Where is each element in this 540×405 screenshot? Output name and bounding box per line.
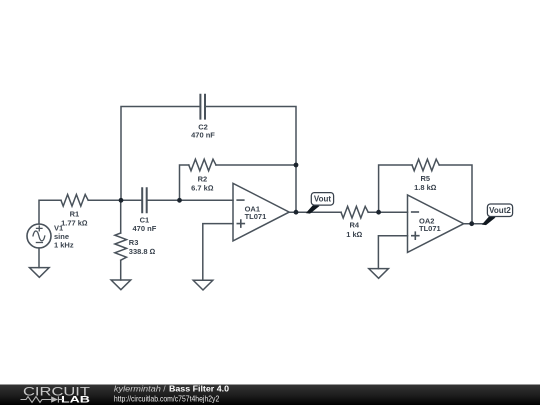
ground OA2	[369, 269, 389, 279]
resistor R5	[412, 159, 439, 171]
junction node R2/C2 right	[294, 163, 299, 168]
wire OA1 plus to ground	[203, 224, 233, 281]
svg-text:1 kHz: 1 kHz	[54, 240, 74, 249]
wire R5 loop left	[379, 165, 412, 212]
svg-text:338.8 Ω: 338.8 Ω	[129, 247, 156, 256]
footer bar	[0, 384, 540, 405]
wire R4 to OA2 minus	[368, 211, 407, 213]
op-amp OA1	[233, 183, 289, 241]
wire OA1 output to R4	[289, 211, 341, 213]
svg-text:LAB: LAB	[61, 395, 91, 405]
svg-text:470 nF: 470 nF	[133, 224, 157, 233]
logo resistor squiggle	[21, 397, 52, 403]
wire OA2 output	[464, 223, 485, 225]
junction node C1/R2/OA1	[177, 198, 182, 203]
svg-text:Bass Filter 4.0: Bass Filter 4.0	[169, 384, 229, 394]
op-amp OA2	[408, 195, 464, 252]
junction node R1/C1/C2/R3	[119, 198, 124, 203]
flag Vout2 tail	[482, 215, 496, 225]
wire C2 loop right	[205, 107, 296, 213]
logo diode	[51, 396, 58, 402]
flag Vout tail	[306, 203, 320, 213]
V1 sine wave	[33, 231, 45, 241]
svg-text:R5: R5	[421, 174, 431, 183]
V1 plus sign	[37, 226, 43, 231]
svg-text:TL071: TL071	[245, 212, 267, 221]
V1 minus sign	[36, 242, 42, 244]
OA2 plus symbol	[412, 232, 419, 239]
svg-text:R3: R3	[129, 238, 139, 247]
svg-text:1.8 kΩ: 1.8 kΩ	[414, 183, 437, 192]
svg-text:Vout: Vout	[314, 195, 332, 204]
svg-text:1.77 kΩ: 1.77 kΩ	[61, 219, 88, 228]
svg-text:R2: R2	[198, 174, 208, 183]
voltage source V1 circle	[27, 224, 51, 248]
junction node OA2 output	[469, 221, 474, 226]
OA1 plus symbol	[237, 220, 244, 227]
svg-text:R1: R1	[70, 210, 80, 219]
resistor R3	[115, 233, 127, 260]
ground V1	[30, 268, 50, 278]
svg-text:R4: R4	[350, 221, 360, 230]
wire R2 loop right	[216, 164, 296, 166]
wire R3 bottom	[120, 261, 122, 280]
resistor R2	[189, 159, 216, 171]
wire R1 to C1	[88, 199, 142, 201]
OA2 minus symbol	[412, 211, 419, 213]
svg-text:Vout2: Vout2	[489, 206, 511, 215]
svg-text:1 kΩ: 1 kΩ	[346, 230, 362, 239]
flag Vout2 box	[487, 204, 512, 217]
capacitor C1	[142, 188, 147, 212]
wire R3 top	[120, 200, 122, 233]
resistor R4	[341, 206, 368, 218]
wire V1 bottom	[38, 248, 40, 268]
svg-text:http://circuitlab.com/c757t4he: http://circuitlab.com/c757t4hejh2y2	[114, 394, 220, 403]
labels	[54, 122, 441, 256]
wire R2 loop left	[180, 165, 189, 200]
ground OA1	[193, 280, 213, 290]
wire C2 loop left	[121, 107, 200, 201]
capacitor C2	[200, 95, 205, 119]
wire V1 top to R1	[39, 200, 61, 224]
svg-text:kylermintah: kylermintah	[114, 384, 161, 394]
OA1 minus symbol	[237, 199, 244, 201]
svg-text:TL071: TL071	[419, 224, 441, 233]
flag Vout box	[311, 193, 333, 206]
wire OA2 plus to ground	[378, 236, 407, 269]
resistor R1	[61, 195, 88, 207]
junction node R4/R5/OA2	[376, 210, 381, 215]
wire C1 to OA1 minus	[147, 199, 233, 201]
ground R3	[111, 280, 131, 290]
svg-text:470 nF: 470 nF	[191, 131, 215, 140]
junction node OA1 output	[294, 210, 299, 215]
svg-text:6.7 kΩ: 6.7 kΩ	[191, 183, 214, 192]
wire R5 loop right	[439, 165, 472, 224]
